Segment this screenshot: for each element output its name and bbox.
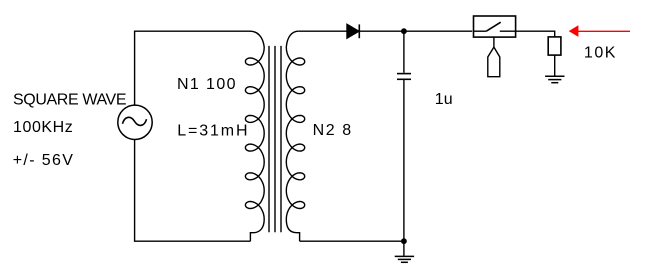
ground <box>395 256 414 262</box>
wire <box>403 241 405 256</box>
svg-text:1u: 1u <box>435 91 453 108</box>
wire <box>298 30 347 32</box>
svg-text:SQUARE WAVE: SQUARE WAVE <box>13 92 127 109</box>
svg-text:L=31mH: L=31mH <box>177 123 247 140</box>
transformer secondary winding L2 <box>286 31 304 241</box>
ground <box>545 76 564 82</box>
wire <box>554 55 556 76</box>
diode D1 <box>347 24 359 38</box>
capacitor C1 <box>397 74 411 80</box>
red probe arrow <box>569 25 630 37</box>
voltage source V1 <box>118 105 152 139</box>
switch S1 <box>474 16 516 77</box>
wire <box>403 80 405 241</box>
svg-text:N2 8: N2 8 <box>313 122 352 139</box>
svg-text:100KHz: 100KHz <box>13 119 73 136</box>
svg-text:10K: 10K <box>584 45 616 62</box>
svg-text:N1 100: N1 100 <box>177 76 236 93</box>
wire <box>359 30 472 32</box>
svg-text:+/- 56V: +/- 56V <box>13 152 74 169</box>
resistor R1 <box>548 37 561 55</box>
transformer core <box>269 46 281 232</box>
wire <box>135 140 251 241</box>
node junction dot <box>401 238 407 244</box>
transformer primary winding L1 <box>245 31 264 241</box>
wire <box>300 240 404 242</box>
wire <box>135 31 250 104</box>
wire <box>403 31 405 73</box>
node junction dot <box>401 28 407 34</box>
wire <box>516 31 555 37</box>
